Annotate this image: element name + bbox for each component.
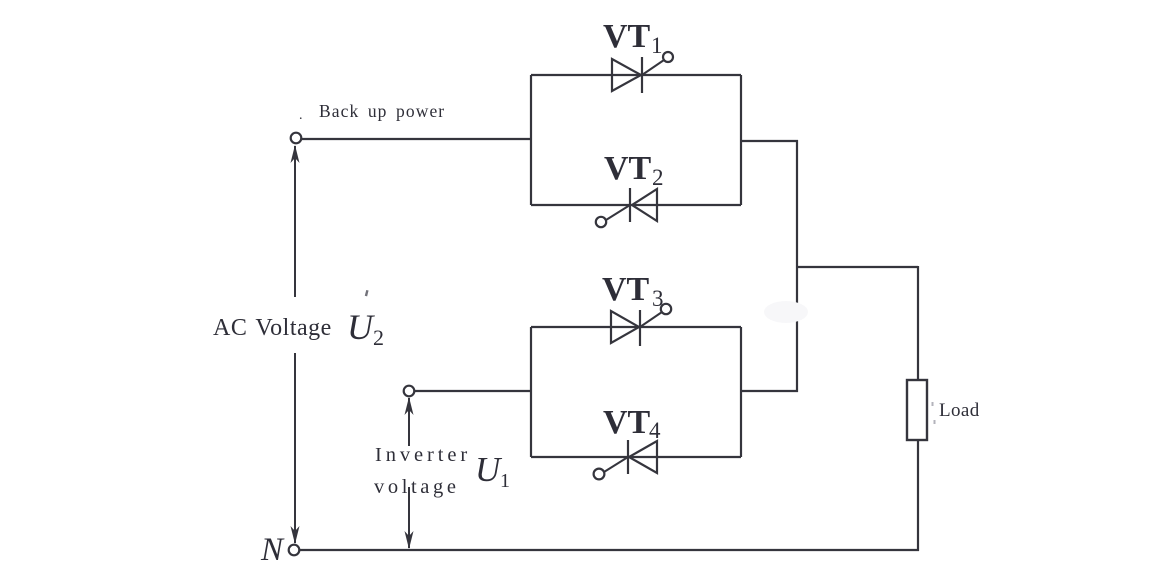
label: Load	[939, 400, 980, 421]
label: Inverter voltage U1	[374, 444, 510, 498]
arrow: AC voltage U2 measurement (up head)	[291, 145, 300, 297]
svg-text:1: 1	[500, 470, 510, 492]
svg-text:3: 3	[652, 286, 664, 311]
wire: vertical bus joining both switch outputs	[796, 140, 798, 392]
arrow: inverter voltage U1 measurement (down head)	[405, 487, 414, 549]
svg-text:VT: VT	[604, 150, 652, 187]
node: N terminal	[289, 545, 300, 556]
wire: load bottom to neutral rail	[917, 440, 919, 551]
svg-text:4: 4	[649, 418, 661, 443]
svg-text:1: 1	[651, 33, 663, 58]
wire: switch box 1 outline (VT1/VT2 parallel pair)	[531, 75, 741, 205]
svg-text:Inverter: Inverter	[375, 444, 471, 466]
node: back-up power input terminal	[291, 133, 302, 144]
svg-text:N: N	[260, 532, 285, 568]
thyristor VT1	[612, 52, 673, 93]
label: VT1	[603, 18, 663, 58]
scan artifact: faint smudge right of bus	[764, 301, 808, 323]
wire: switch box 2 right to bus	[741, 390, 798, 392]
svg-text:2: 2	[373, 325, 384, 350]
svg-text:voltage: voltage	[374, 476, 460, 498]
wire: switch box 2 outline (VT3/VT4 parallel pair)	[531, 327, 741, 457]
svg-text:Back up power: Back up power	[319, 101, 445, 121]
node: inverter input terminal	[404, 386, 415, 397]
svg-text:U: U	[347, 307, 375, 347]
scan artifact: tick below-left of Load	[934, 420, 936, 424]
label: Back up power	[299, 101, 445, 123]
arrow: inverter voltage U1 measurement (up head)	[405, 397, 414, 446]
svg-text:VT: VT	[603, 404, 651, 441]
svg-text:2: 2	[652, 165, 664, 190]
label: AC Voltage U2	[213, 307, 384, 350]
scan artifact: tick above U2	[365, 290, 369, 296]
scan artifact: tick left of Load	[932, 402, 934, 406]
wire: load branch vertical down to load	[917, 266, 919, 380]
svg-text:U: U	[475, 450, 503, 489]
wire: switch box 1 right to bus	[741, 140, 798, 142]
label: VT4	[603, 404, 661, 443]
label: N	[260, 532, 285, 568]
svg-text:Load: Load	[939, 400, 980, 421]
resistor: Load	[907, 380, 927, 440]
thyristor VT3	[611, 304, 671, 346]
svg-text:.: .	[299, 108, 303, 123]
label: VT3	[602, 271, 664, 311]
wire: bus to load branch horizontal	[797, 266, 918, 268]
arrow: AC voltage U2 measurement (down head)	[291, 353, 300, 544]
thyristor VT4	[594, 440, 657, 479]
wire: inverter terminal to switch box 2 left	[415, 390, 531, 392]
wire: bottom neutral rail	[300, 549, 919, 551]
wire: back-up power terminal to switch box 1 left	[302, 138, 531, 140]
label: VT2	[604, 150, 664, 190]
svg-text:VT: VT	[602, 271, 650, 308]
svg-text:VT: VT	[603, 18, 651, 55]
thyristor VT2	[596, 188, 657, 227]
svg-text:AC Voltage: AC Voltage	[213, 315, 332, 341]
